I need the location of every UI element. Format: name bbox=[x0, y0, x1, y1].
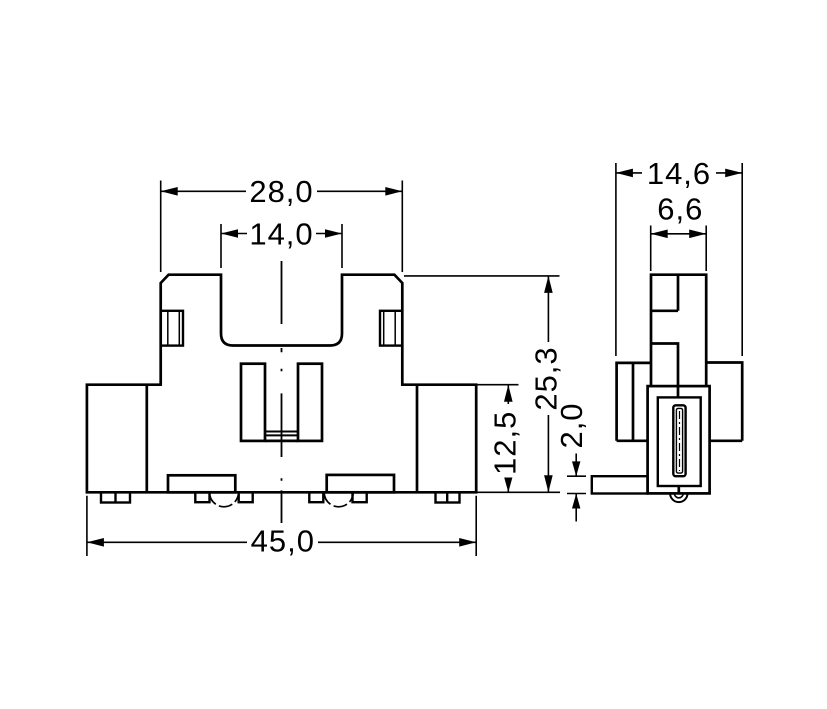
svg-text:14,0: 14,0 bbox=[249, 216, 313, 251]
svg-text:2,0: 2,0 bbox=[554, 402, 589, 448]
svg-text:28,0: 28,0 bbox=[249, 174, 313, 209]
svg-text:25,3: 25,3 bbox=[529, 346, 564, 410]
svg-text:45,0: 45,0 bbox=[251, 524, 315, 559]
svg-text:14,6: 14,6 bbox=[647, 156, 711, 191]
svg-text:6,6: 6,6 bbox=[657, 192, 703, 227]
svg-text:12,5: 12,5 bbox=[488, 411, 523, 475]
